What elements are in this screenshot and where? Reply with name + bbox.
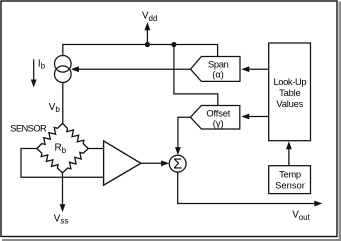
wire Vdd arrow stem (146, 28, 148, 45)
block Span (alpha) (191, 57, 241, 82)
svg-text:Values: Values (276, 98, 303, 109)
svg-text:Table: Table (279, 87, 300, 98)
wire LUT to Span (247, 68, 269, 70)
arrowhead offset into summer (175, 147, 181, 155)
arrowhead Vdd up (145, 22, 151, 30)
current source I1 circles (55, 56, 72, 83)
svg-text:(γ): (γ) (213, 117, 224, 128)
wire Ib arrow stem (33, 60, 35, 82)
wire bridge right output to amplifier (88, 148, 103, 150)
svg-text:(α): (α) (212, 68, 224, 79)
arrowhead amplifier output into summer (161, 160, 169, 166)
resistor top-right arm (63, 123, 89, 148)
wire Temp Sensor to LUT (288, 147, 290, 166)
wire offset feed (rail to Offset top) (174, 45, 218, 106)
wire amplifier output to summer (141, 162, 164, 164)
block Look-Up Table Values (269, 43, 311, 141)
wire Vdd top rail (63, 45, 218, 57)
arrowhead Temp Sensor to LUT (286, 141, 292, 149)
junction dot at Vdd tap (145, 42, 150, 47)
svg-text:SENSOR: SENSOR (10, 123, 47, 134)
arrowhead Vout right (314, 201, 322, 207)
wire summer to Vout (178, 172, 316, 203)
arrowhead Ib down (31, 80, 37, 88)
resistor top-left arm (37, 123, 63, 148)
svg-text:Temp: Temp (279, 169, 301, 180)
junction dot at offset feed tap (171, 42, 176, 47)
svg-text:Look-Up: Look-Up (273, 76, 306, 87)
svg-text:Σ: Σ (173, 157, 182, 173)
op-amp A1 triangle (104, 141, 141, 185)
block Temp Sensor (269, 166, 311, 194)
wire bridge bottom to Vss (62, 173, 64, 206)
wire bridge left output wrap-around to amplifier (21, 149, 104, 178)
block Offset (gamma) (190, 106, 239, 130)
summing junction Σ (169, 155, 186, 172)
wire LUT to Offset (247, 116, 269, 118)
resistor bridge Rb zigzags (37, 123, 88, 172)
resistor bottom-right arm (63, 149, 89, 173)
resistor bottom-left arm (37, 149, 63, 173)
wire offset output to summer (178, 117, 191, 149)
arrowhead LUT to Span (241, 66, 249, 72)
arrowhead LUT to Offset (241, 114, 249, 120)
arrowhead into current source (71, 66, 79, 72)
arrowhead Vss down (60, 204, 66, 212)
wire current source to bridge top (62, 82, 64, 123)
svg-text:Sensor: Sensor (275, 180, 305, 191)
wire span output to current source (77, 68, 191, 70)
